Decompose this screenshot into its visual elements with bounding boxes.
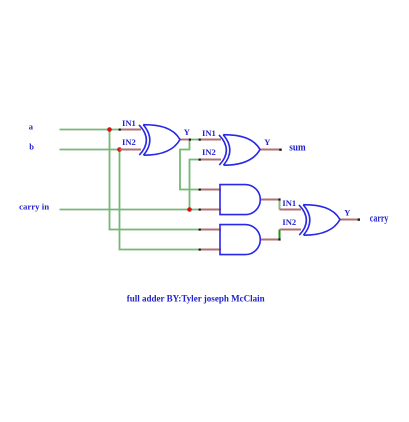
svg-text:a: a <box>29 122 34 132</box>
and gate U4 pin stub Y <box>260 239 280 241</box>
and gate U3 pin stub IN2 <box>200 209 222 211</box>
pin end tick carry output <box>358 218 360 220</box>
junction on net b <box>117 147 122 152</box>
or gate U5 pin stub Y (carry net) <box>340 219 359 221</box>
and gate U3 pin stub IN1 <box>200 189 222 191</box>
pin end tick AND2 IN2 <box>199 249 201 251</box>
wire net carry-in horizontal <box>60 209 200 211</box>
and gate U4 pin stub IN2 <box>200 249 222 251</box>
pin end tick XOR1 Y <box>189 139 191 141</box>
pin end tick OR IN2 bottom corner <box>278 238 280 240</box>
xor gate U1 pin stub IN1 <box>120 129 142 131</box>
junction on net a <box>107 127 112 132</box>
svg-text:Y: Y <box>184 127 190 137</box>
xor gate U2 pin stub Y (sum net) <box>260 149 281 151</box>
and gate U4 body <box>220 225 260 255</box>
and gate U3 pin stub Y <box>260 199 280 201</box>
pin end tick AND2 IN1 <box>199 229 201 231</box>
junction on net carry-in <box>187 207 192 212</box>
pin end tick sum output <box>279 149 281 151</box>
pin end tick XOR1 IN1 <box>119 129 121 131</box>
and gate U4 pin stub IN1 <box>200 229 222 231</box>
svg-text:Y: Y <box>264 137 270 147</box>
svg-text:carry in: carry in <box>19 202 49 212</box>
xor gate U1 pin stub Y <box>180 139 190 141</box>
svg-text:full adder BY:Tyler joseph McC: full adder BY:Tyler joseph McClain <box>127 293 265 303</box>
and gate U3 body <box>220 185 260 215</box>
wire branch b down to AND2 IN2 <box>120 150 200 250</box>
svg-text:IN1: IN1 <box>122 118 136 128</box>
wire branch a down to AND2 IN1 <box>110 130 200 230</box>
pin end tick XOR2 IN2 <box>199 159 201 161</box>
svg-text:b: b <box>29 142 34 152</box>
svg-text:Y: Y <box>344 208 350 218</box>
xor gate U2 body <box>219 135 260 166</box>
xor gate U2 pin stub IN1 <box>200 139 222 141</box>
wire net a horizontal <box>60 129 120 131</box>
svg-text:IN2: IN2 <box>122 137 136 147</box>
svg-text:IN2: IN2 <box>202 147 216 157</box>
wire AND2 out up to OR IN2 <box>279 230 281 240</box>
or gate U5 pin stub IN2 <box>280 229 302 231</box>
pin end tick AND1 IN2 <box>199 209 201 211</box>
svg-text:IN1: IN1 <box>282 198 296 208</box>
wire AND1 out down to OR IN1 <box>279 200 281 210</box>
pin end tick XOR2 IN1 <box>199 139 201 141</box>
pin end tick OR IN1 top corner <box>278 198 280 200</box>
pin end tick AND1 IN1 <box>199 189 201 191</box>
svg-text:IN1: IN1 <box>202 128 216 138</box>
wire branch XOR1 Y down to AND1 IN1 <box>180 140 200 190</box>
svg-text:carry: carry <box>370 214 389 225</box>
or gate U5 body <box>299 205 340 236</box>
xor gate U1 body <box>139 125 180 156</box>
svg-text:sum: sum <box>289 143 306 154</box>
xor gate U2 pin stub IN2 <box>200 159 222 161</box>
xor gate U1 pin stub IN2 <box>120 149 142 151</box>
wire branch carry-in up to XOR2 IN2 <box>190 160 200 210</box>
wire net b horizontal <box>60 149 120 151</box>
or gate U5 pin stub IN1 <box>280 209 302 211</box>
wire XOR1 Y to XOR2 IN1 <box>190 139 200 141</box>
svg-text:IN2: IN2 <box>282 217 296 227</box>
